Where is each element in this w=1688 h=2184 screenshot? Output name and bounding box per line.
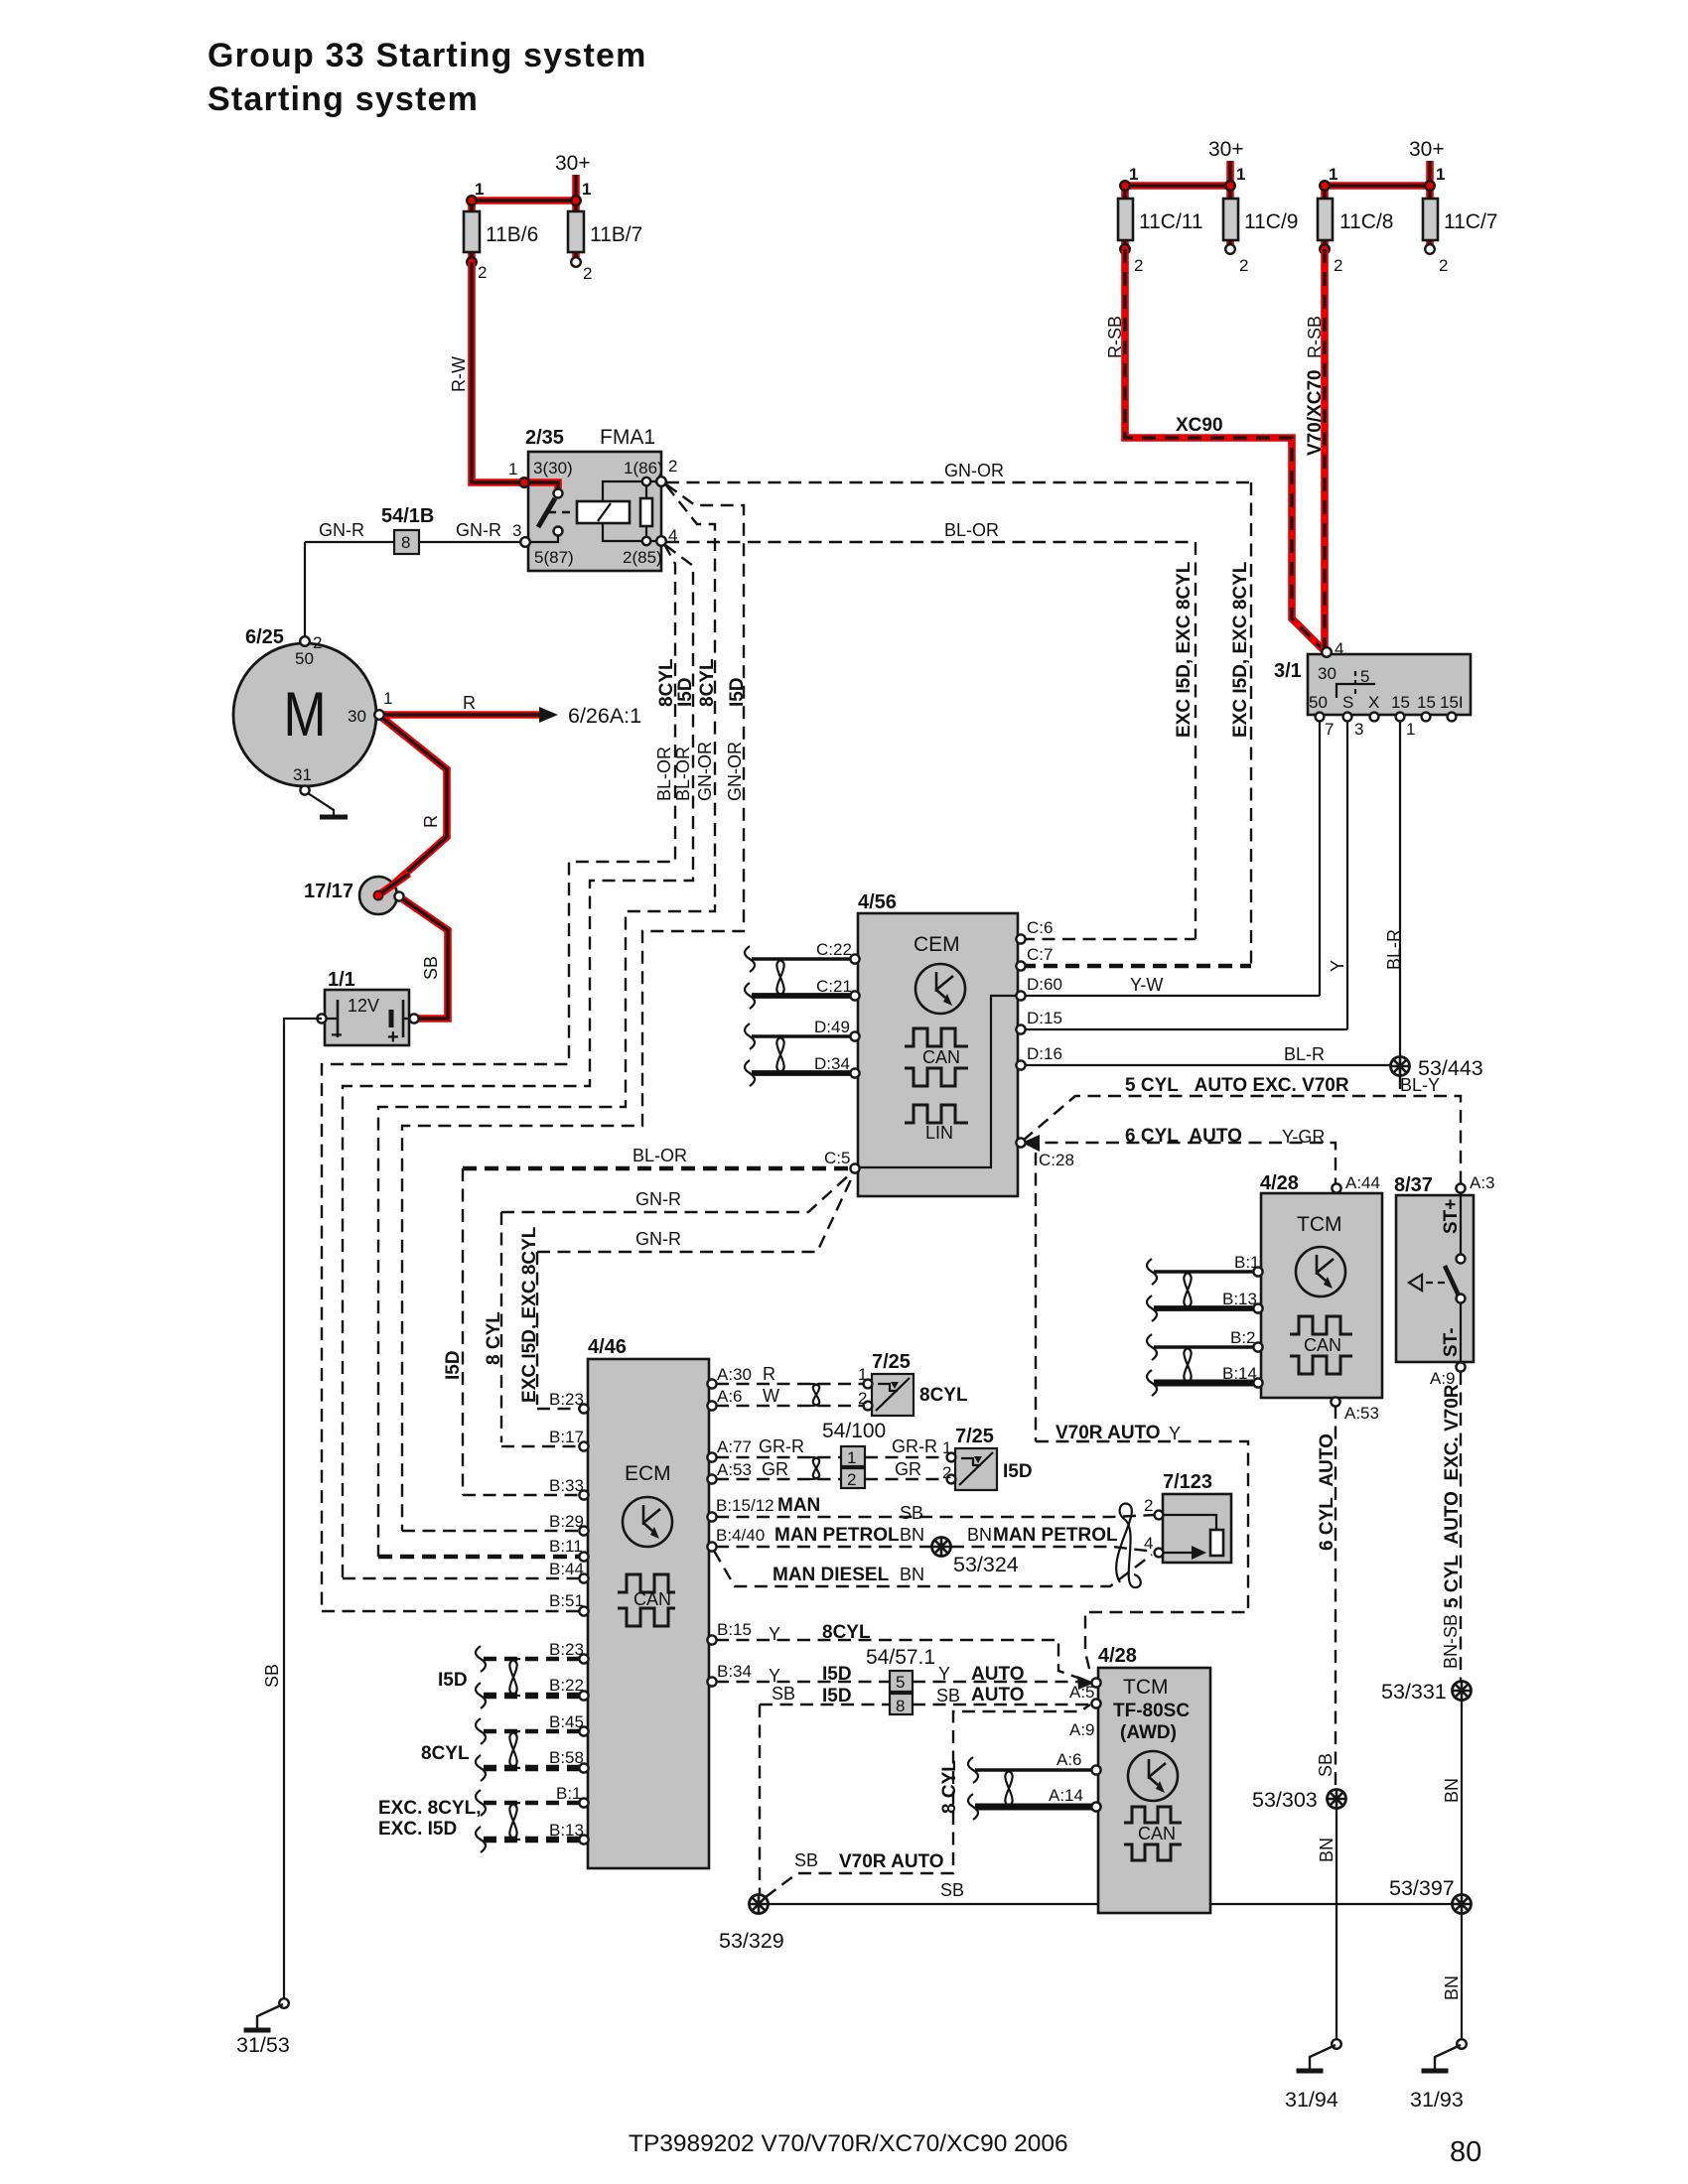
splice 53/324 — [932, 1538, 951, 1557]
svg-text:BL-OR: BL-OR — [673, 747, 693, 801]
squiggle B:13 — [476, 1827, 486, 1852]
svg-text:C:21: C:21 — [816, 977, 852, 996]
svg-text:D:60: D:60 — [1027, 975, 1062, 994]
svg-text:3(30): 3(30) — [533, 459, 573, 478]
svg-text:C:28: C:28 — [1039, 1151, 1074, 1169]
svg-text:GN-R: GN-R — [319, 520, 364, 540]
svg-text:V70R AUTO: V70R AUTO — [1055, 1423, 1161, 1443]
wire through fuse 11C/8 (red) — [1321, 186, 1329, 249]
svg-text:1: 1 — [847, 1448, 856, 1467]
squiggle B:23 — [476, 1646, 486, 1672]
node ground 31/93 — [1457, 2039, 1467, 2049]
squiggle B:13 — [1147, 1296, 1157, 1321]
squiggle B:14 — [1147, 1370, 1157, 1396]
wire SB V70R AUTO from splice up to TCM A:9 — [766, 1705, 1090, 1897]
node ECM B:1 — [579, 1798, 588, 1807]
TCM TF-80SC CAN symbol — [1124, 1807, 1182, 1860]
node TCM A:44 — [1332, 1183, 1340, 1192]
svg-text:LIN: LIN — [925, 1123, 953, 1143]
wire 8/37 A:9 down to splice 53/331 (5 CYL AUTO EXC. V70R) — [1460, 1372, 1462, 1681]
node ECM B:4/40 — [707, 1542, 716, 1551]
svg-text:8: 8 — [401, 533, 410, 552]
node ECM B:17 — [579, 1441, 588, 1450]
relay internal red stub to switch contact — [520, 482, 558, 488]
svg-text:SB: SB — [421, 956, 441, 980]
node 11C/8 pin 2 — [1320, 244, 1330, 254]
wire 30+ feed to 11C/9 (red) — [1226, 161, 1234, 186]
svg-text:Y: Y — [769, 1624, 780, 1644]
svg-text:2: 2 — [478, 263, 487, 282]
svg-text:BN: BN — [1442, 1778, 1462, 1803]
svg-text:1: 1 — [1329, 165, 1337, 184]
svg-text:1: 1 — [1129, 165, 1138, 184]
wire through fuse 11C/11 (red) — [1121, 186, 1129, 249]
svg-text:1: 1 — [508, 460, 517, 478]
svg-text:I5D: I5D — [822, 1686, 852, 1706]
wire twisted pair to CEM D:49 — [752, 1034, 851, 1038]
splice 53/397 — [1453, 1895, 1472, 1914]
connector 54/57.1 pin 8 — [890, 1694, 913, 1714]
svg-text:31/53: 31/53 — [236, 2033, 290, 2057]
svg-text:30+: 30+ — [555, 152, 591, 175]
wire splice 53/443 down to BL-Y row — [1399, 1076, 1401, 1096]
svg-text:M: M — [283, 680, 326, 750]
resistor module 7/123 box — [1163, 1494, 1231, 1563]
squiggle A:6 — [968, 1757, 978, 1783]
node 11C/8 top — [1320, 181, 1330, 191]
svg-text:2: 2 — [313, 633, 322, 652]
svg-text:B:51: B:51 — [549, 1591, 584, 1610]
svg-text:B:4/40: B:4/40 — [716, 1526, 765, 1545]
svg-text:GN-R: GN-R — [635, 1229, 681, 1249]
svg-text:11B/7: 11B/7 — [590, 223, 642, 246]
8/37 dashed drive link and arrow — [1426, 1282, 1450, 1284]
node 7/25 pin 1 — [864, 1380, 873, 1389]
svg-text:ECM: ECM — [625, 1462, 671, 1485]
svg-text:80: 80 — [1450, 2136, 1481, 2168]
svg-text:5 CYL AUTO EXC. V70R: 5 CYL AUTO EXC. V70R — [1125, 1075, 1349, 1096]
twist X B:1/B:13 — [506, 1803, 520, 1840]
wire SB vertical down to splice 53/329 — [759, 1705, 761, 1894]
relay internal wiring coil to pins — [603, 481, 661, 541]
node battery minus — [317, 1014, 326, 1023]
node 11C/11 top — [1120, 181, 1130, 191]
svg-text:B:29: B:29 — [549, 1512, 584, 1531]
splice 53/303 — [1328, 1790, 1346, 1809]
squiggle A:14 — [968, 1794, 978, 1820]
svg-text:B:14: B:14 — [1222, 1364, 1257, 1383]
resistor 7/25 (8CYL) — [872, 1374, 914, 1416]
wire twisted pair to CEM D:34 — [752, 1070, 851, 1076]
svg-text:30: 30 — [348, 707, 366, 726]
svg-text:S: S — [1342, 693, 1353, 712]
wire ECM B:34 row (Y I5D) to 54/57.1 pin 5 and on to TCM A:5 (Y AUTO) — [716, 1681, 1084, 1683]
resistor 7/25 (I5D) — [955, 1448, 997, 1490]
wire CEM C:28 down (6 CYL AUTO to V70R AUTO row) — [1035, 1153, 1037, 1441]
svg-text:MAN DIESEL: MAN DIESEL — [773, 1565, 890, 1585]
svg-text:B:22: B:22 — [549, 1676, 584, 1695]
wire twisted pair ECM B:23 lower (I5D) — [484, 1657, 580, 1661]
wire 31 motor pin to ground — [304, 786, 306, 788]
svg-text:B:15/12: B:15/12 — [716, 1496, 774, 1515]
svg-text:GR-R: GR-R — [759, 1436, 804, 1456]
svg-text:6/26A:1: 6/26A:1 — [568, 704, 641, 728]
svg-text:Group 33 Starting system: Group 33 Starting system — [208, 37, 647, 74]
svg-text:GN-OR: GN-OR — [725, 742, 745, 801]
svg-text:R: R — [421, 815, 441, 828]
svg-text:11C/8: 11C/8 — [1339, 210, 1393, 233]
svg-text:XC90: XC90 — [1176, 415, 1223, 436]
svg-text:EXC. I5D: EXC. I5D — [378, 1819, 457, 1840]
svg-text:Starting system: Starting system — [208, 80, 479, 118]
svg-text:2: 2 — [668, 457, 677, 476]
node 11B/6 bottom pin 2 — [467, 257, 477, 267]
wire V70R AUTO Y from C:28 vertical to TCM A:5 — [1036, 1441, 1248, 1673]
svg-text:4: 4 — [1335, 639, 1343, 658]
7/123 internal resistor — [1163, 1515, 1216, 1530]
svg-text:I5D: I5D — [1003, 1461, 1033, 1482]
fuse 11B/6 — [464, 211, 480, 252]
svg-text:A:5: A:5 — [1069, 1683, 1095, 1702]
wire SB I5D row to 54/57.1 pin 8 and on to TCM A:9 (SB AUTO) — [760, 1704, 1089, 1706]
wire ECM A:6 row (W) to 7/25 pin 2 — [716, 1405, 863, 1407]
svg-text:7/25: 7/25 — [955, 1426, 994, 1447]
svg-text:SB: SB — [794, 1850, 818, 1870]
wire BN splice 53/397 to ground 31/93 — [1461, 1914, 1463, 2039]
svg-text:SB: SB — [940, 1880, 964, 1900]
wire twisted pair to TCM B:1 — [1154, 1270, 1254, 1274]
svg-text:TP3989202 V70/V70R/XC70/XC90 2: TP3989202 V70/V70R/XC70/XC90 2006 — [629, 2130, 1068, 2157]
svg-text:CAN: CAN — [1304, 1335, 1341, 1355]
svg-text:I5D: I5D — [675, 677, 696, 707]
node ECM B:23 — [579, 1404, 588, 1413]
wire through fuse 11B/6 (red) — [468, 201, 476, 262]
svg-text:BL-OR: BL-OR — [654, 747, 674, 801]
wire relay pin4 stub to I5D BL-OR vertical — [343, 545, 693, 1578]
svg-text:BL-Y: BL-Y — [1400, 1075, 1440, 1095]
fuse 11C/8 — [1318, 199, 1333, 240]
node CEM D:60 — [1016, 991, 1025, 1000]
svg-text:31: 31 — [293, 765, 312, 784]
svg-text:BN: BN — [1317, 1838, 1336, 1862]
wire 30+ feed to fuse 11B/7 (red) — [572, 175, 580, 201]
svg-text:8CYL: 8CYL — [822, 1622, 871, 1643]
svg-text:I5D: I5D — [822, 1664, 852, 1685]
squiggle B:1 — [476, 1790, 486, 1816]
node CEM C:21 — [850, 991, 859, 1000]
svg-text:MAN PETROL: MAN PETROL — [993, 1525, 1118, 1546]
svg-text:12V: 12V — [348, 996, 379, 1016]
svg-text:53/397: 53/397 — [1389, 1876, 1455, 1900]
splice 53/443 — [1391, 1057, 1410, 1076]
svg-text:D:15: D:15 — [1027, 1009, 1062, 1027]
node 8/37 A:9 — [1456, 1362, 1465, 1371]
svg-text:2: 2 — [1144, 1496, 1153, 1515]
wire vertical BL-OR to CEM C:6 — [1195, 542, 1196, 939]
svg-text:17/17: 17/17 — [304, 881, 353, 902]
connector 54/100 pin 1 — [841, 1446, 865, 1466]
twist X B:45/B:58 — [506, 1731, 520, 1768]
svg-text:2: 2 — [1134, 256, 1143, 275]
svg-text:BL-R: BL-R — [1384, 929, 1404, 970]
svg-text:BN: BN — [900, 1525, 924, 1545]
node CEM C:7 — [1016, 961, 1025, 970]
svg-text:8 CYL: 8 CYL — [939, 1760, 960, 1814]
node ECM B:15 — [707, 1635, 716, 1644]
squiggle B:1 — [1147, 1259, 1157, 1285]
svg-text:2: 2 — [858, 1389, 867, 1408]
svg-text:R-SB: R-SB — [1105, 316, 1125, 358]
svg-text:8CYL: 8CYL — [697, 658, 718, 707]
svg-text:B:1: B:1 — [1234, 1253, 1260, 1272]
relay pin 1 node — [519, 478, 529, 487]
wire TCM A:53 down to splice 53/303 (6 CYL AUTO) — [1335, 1406, 1336, 1789]
relay coil — [577, 501, 630, 523]
node CEM D:15 — [1016, 1024, 1025, 1033]
svg-text:53/303: 53/303 — [1252, 1788, 1318, 1812]
relay wire lower contact to pin 3 — [525, 535, 558, 542]
svg-text:EXC I5D, EXC 8CYL: EXC I5D, EXC 8CYL — [519, 1226, 540, 1403]
node TCM B:13 — [1253, 1303, 1262, 1312]
svg-text:C:5: C:5 — [824, 1149, 850, 1167]
ground 31/93 — [1422, 2045, 1462, 2071]
node ECM B:45 — [579, 1726, 588, 1735]
svg-text:A:9: A:9 — [1069, 1720, 1095, 1739]
svg-text:4/46: 4/46 — [588, 1336, 627, 1358]
svg-text:6 CYL AUTO: 6 CYL AUTO — [1125, 1126, 1242, 1147]
svg-text:SB: SB — [900, 1503, 923, 1523]
node 17/17 terminal — [394, 891, 403, 900]
relay pin 3 node — [520, 537, 530, 547]
ECM 4/46 box — [588, 1359, 709, 1868]
svg-text:B:11: B:11 — [549, 1537, 583, 1556]
svg-text:11B/6: 11B/6 — [486, 223, 538, 246]
svg-text:R-SB: R-SB — [1305, 316, 1325, 358]
squiggle D:49 — [745, 1024, 755, 1049]
svg-text:3: 3 — [512, 521, 521, 540]
twist X A:6/A:14 — [1002, 1770, 1016, 1807]
svg-text:B:17: B:17 — [549, 1428, 584, 1446]
svg-text:50: 50 — [295, 649, 314, 668]
wire CEM D:15 to 3/1 pin S — [1022, 1028, 1347, 1030]
svg-text:7: 7 — [1325, 720, 1334, 739]
node ECM A:6 — [707, 1401, 716, 1410]
svg-text:50: 50 — [1309, 693, 1328, 712]
wire relay pin4 stub to 8CYL BL-OR vertical — [322, 544, 675, 1611]
wire twisted pair to TCM A:6 — [975, 1768, 1092, 1772]
wire link 11C/11 to 11C/9 (red) — [1125, 182, 1230, 190]
svg-text:C:22: C:22 — [816, 940, 852, 959]
node ECM B:23 lower — [579, 1654, 588, 1663]
wire twisted pair ECM B:58 (8CYL) — [484, 1765, 580, 1771]
battery 1/1 — [325, 990, 409, 1045]
svg-text:TCM: TCM — [1297, 1213, 1342, 1236]
ECM control module icon — [623, 1497, 672, 1547]
svg-text:I5D: I5D — [438, 1670, 468, 1691]
svg-text:GN-R: GN-R — [456, 520, 501, 540]
svg-text:A:6: A:6 — [1056, 1750, 1082, 1769]
node 11C/7 top — [1425, 181, 1435, 191]
wire through fuse 11C/9 (red) — [1226, 186, 1234, 249]
wire BN splice 53/331 to splice 53/397 — [1461, 1701, 1463, 1894]
squiggle B:22 — [476, 1683, 486, 1708]
wire ECM A:30 row (R) to 7/25 pin 1 — [716, 1383, 863, 1385]
svg-text:CEM: CEM — [914, 933, 960, 956]
svg-text:1: 1 — [942, 1438, 951, 1457]
svg-text:B:13: B:13 — [549, 1821, 584, 1840]
svg-text:BN: BN — [967, 1525, 992, 1545]
wire 5 CYL AUTO EXC. V70R row (BL-Y) to 8/37 A:3 — [1023, 1096, 1461, 1183]
relay coil drive dashed link — [548, 511, 577, 513]
svg-text:B:13: B:13 — [1222, 1290, 1257, 1308]
svg-text:Y: Y — [938, 1664, 950, 1684]
svg-text:−: − — [331, 1024, 343, 1046]
wire twisted pair ECM B:1 (EXC) — [484, 1801, 580, 1805]
twist X A:77/A:53 — [810, 1457, 822, 1479]
svg-text:+: + — [387, 1026, 399, 1048]
svg-text:1/1: 1/1 — [328, 969, 355, 991]
svg-text:CAN: CAN — [633, 1589, 671, 1609]
svg-text:R-W: R-W — [449, 356, 469, 392]
svg-text:CAN: CAN — [922, 1047, 960, 1067]
svg-text:D:16: D:16 — [1027, 1044, 1062, 1063]
svg-text:A:53: A:53 — [1344, 1404, 1379, 1423]
svg-text:30+: 30+ — [1409, 138, 1445, 161]
svg-text:1: 1 — [475, 180, 484, 199]
wire GN-R row to CEM C:5 (diagonal) — [501, 1172, 852, 1212]
wire ECM B:44 row — [343, 1577, 580, 1579]
node TCM B:1 — [1253, 1267, 1262, 1276]
twist X B:1/B:13 — [1181, 1272, 1195, 1308]
svg-text:BL-OR: BL-OR — [633, 1146, 687, 1165]
wire twisted pair ECM B:45 (8CYL) — [484, 1729, 580, 1733]
twist X B:23/B:22 — [506, 1659, 520, 1696]
node ECM B:51 — [579, 1606, 588, 1615]
svg-text:4/28: 4/28 — [1098, 1645, 1137, 1667]
node 11C/11 pin 2 — [1120, 244, 1130, 254]
node TCM B:14 — [1253, 1378, 1262, 1387]
wire twisted pair to TCM B:14 — [1154, 1380, 1254, 1387]
wire ECM B:23 row — [537, 1408, 580, 1410]
svg-text:GN-OR: GN-OR — [944, 461, 1004, 480]
wire twisted pair to TCM A:14 — [975, 1804, 1092, 1811]
svg-text:C:7: C:7 — [1027, 945, 1053, 964]
wire R-SB XC90 dashed red from 11C/11 to 3/1 pin 4 — [1125, 249, 1324, 650]
wire ECM B:33 row — [463, 1494, 580, 1496]
svg-text:11C/9: 11C/9 — [1244, 210, 1298, 233]
svg-text:B:45: B:45 — [549, 1712, 584, 1731]
node ECM B:29 — [579, 1526, 588, 1535]
svg-text:1: 1 — [1436, 165, 1445, 184]
node ECM B:15/12 — [707, 1512, 716, 1521]
svg-text:15I: 15I — [1440, 693, 1464, 712]
wire SB splice 53/329 to splice 53/397 — [769, 1903, 1452, 1905]
svg-text:8CYL: 8CYL — [421, 1743, 470, 1764]
wire 3/1 pin 15 down to splice 53/443 — [1399, 721, 1401, 1056]
svg-text:31/93: 31/93 — [1410, 2088, 1464, 2112]
svg-text:TF-80SC: TF-80SC — [1113, 1701, 1190, 1721]
svg-text:AUTO: AUTO — [971, 1664, 1024, 1685]
CEM CAN symbol — [905, 1028, 968, 1086]
node TCM A:53 — [1331, 1397, 1339, 1406]
svg-text:ST+: ST+ — [1441, 1199, 1462, 1234]
relay switch upper contact — [554, 489, 563, 498]
connector 54/57.1 pin 5 — [890, 1671, 913, 1692]
svg-text:2(85): 2(85) — [623, 548, 662, 567]
node 7/123 pin 2 — [1155, 1511, 1164, 1520]
svg-text:EXC I5D, EXC 8CYL: EXC I5D, EXC 8CYL — [1174, 561, 1195, 738]
svg-text:AUTO: AUTO — [971, 1685, 1024, 1706]
relay 2/35 box — [528, 452, 661, 571]
wire EXC vertical x541 to ECM B:23 — [536, 1252, 538, 1405]
wire twisted pair to TCM B:2 — [1154, 1345, 1254, 1349]
svg-text:A:53: A:53 — [717, 1460, 752, 1479]
relay pin 2 node — [656, 477, 666, 486]
svg-text:11C/11: 11C/11 — [1139, 210, 1203, 233]
wire ECM B:15/12 row (MAN SB) to 7/123 pin 2 — [716, 1515, 1155, 1517]
node TCM A:5 — [1091, 1678, 1100, 1687]
svg-text:Y: Y — [769, 1666, 780, 1686]
svg-text:BN: BN — [900, 1565, 924, 1584]
arrow into CEM C:28 — [1022, 1135, 1040, 1152]
svg-text:30: 30 — [1318, 664, 1336, 683]
8/37 switch internal — [1460, 1192, 1462, 1254]
svg-text:3: 3 — [1354, 720, 1363, 739]
svg-text:MAN: MAN — [777, 1495, 820, 1516]
svg-text:GN-R: GN-R — [635, 1189, 681, 1209]
svg-text:BN-SB: BN-SB — [1441, 1614, 1461, 1669]
svg-text:V70R AUTO: V70R AUTO — [839, 1851, 944, 1872]
wire BN splice 53/303 to ground 31/94 — [1336, 1809, 1337, 2039]
node ECM A:30 — [707, 1379, 716, 1388]
ignition switch symbol inside 3/1 — [1336, 684, 1375, 698]
wire ECM B:29 row — [402, 1530, 580, 1532]
svg-text:54/57.1: 54/57.1 — [866, 1646, 935, 1669]
node battery plus — [409, 1014, 418, 1023]
wire fuse link 11B/6 to 11B/7 top (red) — [472, 197, 576, 205]
node CEM C:28 — [1016, 1138, 1025, 1147]
node ECM A:53 — [707, 1474, 716, 1483]
svg-text:W: W — [763, 1386, 779, 1406]
wire 3/1 pin 50 down to D:60 row — [1319, 721, 1321, 996]
wire CEM D:16 to splice 53/443 (BL-R) — [1022, 1064, 1390, 1066]
svg-text:FMA1: FMA1 — [600, 426, 655, 449]
svg-text:B:33: B:33 — [549, 1476, 584, 1495]
svg-text:30+: 30+ — [1208, 138, 1244, 161]
svg-text:D:49: D:49 — [814, 1018, 850, 1036]
svg-text:I5D: I5D — [443, 1350, 464, 1380]
wire 8CYL vertical x505 to ECM B:17 — [500, 1212, 502, 1442]
squiggle B:2 — [1147, 1334, 1157, 1360]
svg-text:R: R — [463, 693, 476, 713]
wire R motor pin1 down to 17/17 (red) — [382, 718, 447, 891]
wire 6 CYL AUTO row (Y-GR) to TCM A:44 — [1025, 1143, 1336, 1183]
wire GN-OR relay pin 2 to vertical x1260 — [666, 481, 1251, 483]
svg-text:53/329: 53/329 — [719, 1929, 784, 1953]
wire BL-OR relay pin 4 to vertical x1204 — [666, 541, 1196, 543]
wire ECM B:11 row (thick) — [378, 1555, 580, 1560]
svg-text:Y-GR: Y-GR — [1282, 1127, 1325, 1147]
wire BN MAN PETROL splice to 7/123 pin 4 — [951, 1547, 1155, 1552]
svg-text:D:34: D:34 — [814, 1054, 850, 1073]
wire twisted pair to CEM C:21 — [752, 993, 851, 999]
svg-text:A:44: A:44 — [1345, 1173, 1380, 1192]
svg-text:I5D: I5D — [727, 677, 748, 707]
svg-text:B:34: B:34 — [717, 1662, 752, 1681]
node ECM B:11 — [579, 1552, 588, 1561]
svg-text:A:3: A:3 — [1470, 1173, 1495, 1192]
CEM 4/56 box — [858, 913, 1018, 1196]
